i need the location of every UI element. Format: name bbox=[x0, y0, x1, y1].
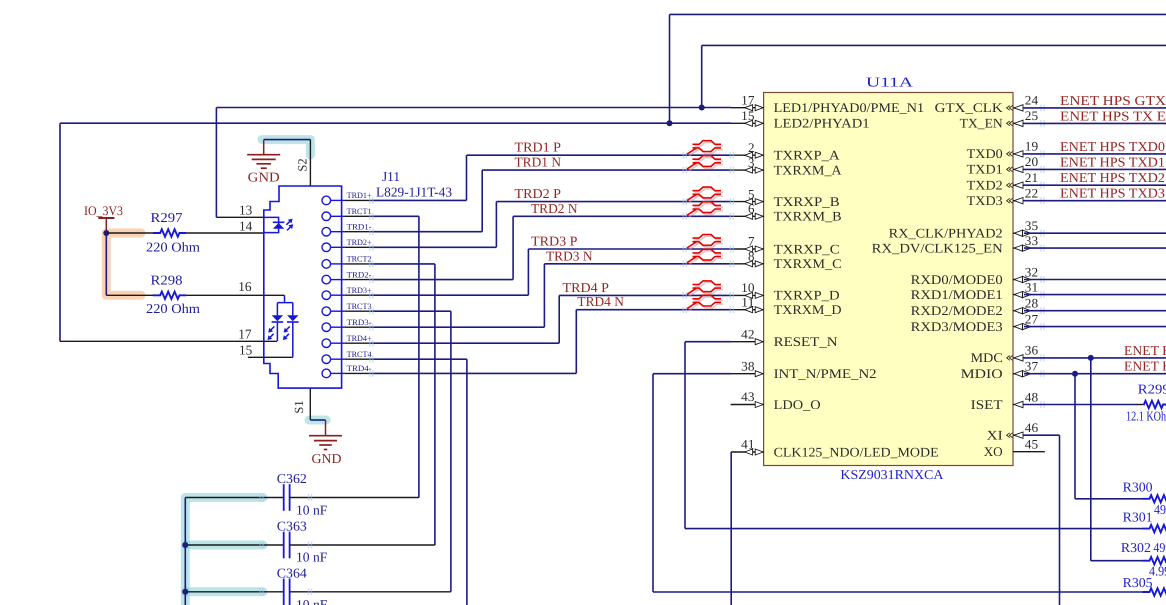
wire net ENET_HPS_GTX bbox=[1024, 107, 1166, 109]
svg-text:RXD3/MODE3: RXD3/MODE3 bbox=[911, 319, 1003, 334]
highlight IO_3V3 feed (peach) bbox=[106, 233, 141, 295]
U11A pin 22 TXD3 bbox=[1013, 200, 1024, 202]
U11A pin 37 MDIO bbox=[1013, 373, 1031, 375]
wire LED1 net (U11A pin17 to J11 pin13) bbox=[216, 107, 731, 109]
svg-text:C364: C364 bbox=[277, 566, 307, 581]
svg-text:TRD4 P: TRD4 P bbox=[563, 280, 610, 295]
power IO_3V3 bbox=[98, 217, 114, 219]
differential pair marker bbox=[694, 189, 723, 193]
wire RXD/RX net bbox=[1024, 326, 1166, 328]
wire from J11 TRD2- bbox=[372, 279, 514, 281]
svg-text:C363: C363 bbox=[277, 518, 307, 533]
svg-text:IO_3V3: IO_3V3 bbox=[84, 203, 123, 218]
J11 pin TRCT2 bbox=[331, 263, 345, 265]
wire net ENET_HPS_TXD2 bbox=[1024, 184, 1166, 186]
svg-text:ENET HPS TXD1: ENET HPS TXD1 bbox=[1060, 154, 1165, 169]
svg-text:TRD2 P: TRD2 P bbox=[515, 186, 562, 201]
U11A pin 35 RX_CLK/PHYAD2 bbox=[1013, 232, 1031, 234]
svg-text:TRCT2: TRCT2 bbox=[347, 255, 372, 264]
svg-text:TXRXM_D: TXRXM_D bbox=[774, 302, 842, 317]
connector J11 body bbox=[264, 186, 342, 388]
svg-text:TXD1: TXD1 bbox=[967, 162, 1003, 177]
svg-text:TRD1 N: TRD1 N bbox=[515, 155, 562, 170]
svg-text:17: 17 bbox=[238, 327, 252, 342]
wire IO_3V3 to R297/R298 bbox=[106, 232, 153, 234]
wire net TRD3_N bbox=[544, 263, 731, 265]
wire from J11 TRD4- bbox=[372, 372, 577, 374]
svg-text:RESET_N: RESET_N bbox=[774, 334, 839, 349]
svg-text:12.1 KOhm: 12.1 KOhm bbox=[1126, 408, 1166, 423]
wire net ENET_HPS_TXD0 bbox=[1024, 153, 1166, 155]
wire RXD/RX net bbox=[1024, 279, 1166, 281]
svg-text:LED1/PHYAD0/PME_N1: LED1/PHYAD0/PME_N1 bbox=[774, 100, 925, 115]
U11A pin 24 GTX_CLK bbox=[1013, 107, 1024, 109]
svg-text:31: 31 bbox=[1025, 279, 1038, 294]
svg-text:RXD1/MODE1: RXD1/MODE1 bbox=[911, 287, 1003, 302]
svg-text:R299: R299 bbox=[1138, 382, 1166, 397]
svg-text:TRD2 N: TRD2 N bbox=[531, 201, 578, 216]
svg-text:TXD3: TXD3 bbox=[967, 193, 1003, 208]
U11A pin 17 LED1/PHYAD0/PME_N1 bbox=[731, 107, 764, 109]
wire R297 to J11 pin14 bbox=[186, 232, 263, 234]
wire net TRD4_P bbox=[559, 294, 731, 296]
svg-text:22: 22 bbox=[1025, 186, 1038, 201]
J11 pin TRCT3 bbox=[331, 310, 345, 312]
wire net TRD3_P bbox=[528, 248, 731, 250]
svg-text:ENET HPS TXD3: ENET HPS TXD3 bbox=[1060, 186, 1165, 201]
svg-text:S2: S2 bbox=[296, 158, 310, 171]
svg-text:ENET HPS TXD0: ENET HPS TXD0 bbox=[1060, 139, 1165, 154]
U11A pin 2 TXRXP_A bbox=[731, 154, 764, 156]
LED D-bottom dual inside J11 (pins 16-17-15) bbox=[277, 295, 292, 315]
wire top net 2 bbox=[702, 44, 1166, 46]
wire XI crystal bbox=[1024, 434, 1060, 436]
svg-text:10 nF: 10 nF bbox=[296, 502, 328, 517]
svg-text:32: 32 bbox=[1025, 264, 1038, 279]
U11A pin 25 TX_EN bbox=[1013, 122, 1024, 124]
svg-text:48: 48 bbox=[1025, 389, 1038, 404]
svg-text:220 Ohm: 220 Ohm bbox=[146, 301, 201, 316]
wire R298 to J11 pin16 bbox=[186, 294, 284, 296]
wire net ENET_MDC bbox=[1024, 357, 1166, 359]
highlight S1-GND jog (teal) bbox=[309, 416, 326, 425]
wire RXD/RX net bbox=[1024, 232, 1166, 234]
U11A pin 28 RXD2/MODE2 bbox=[1013, 310, 1031, 312]
differential pair marker bbox=[694, 283, 723, 287]
svg-text:TXRXP_C: TXRXP_C bbox=[774, 241, 840, 256]
svg-text:33: 33 bbox=[1025, 233, 1038, 248]
U11A pin 46 XI bbox=[1013, 434, 1024, 436]
node junction MDIO bbox=[1072, 371, 1078, 377]
svg-text:TXD0: TXD0 bbox=[967, 146, 1003, 161]
U11A pin 7 TXRXP_C bbox=[731, 248, 764, 250]
J11 pin TRD2+ bbox=[331, 246, 345, 248]
J11 pin TRD2- bbox=[331, 279, 345, 281]
wire MDIO to R300 bbox=[1074, 374, 1076, 499]
U11A pin 38 INT_N/PME_N2 bbox=[731, 373, 764, 375]
svg-text:TRD2-: TRD2- bbox=[347, 270, 372, 279]
svg-text:CLK125_NDO/LED_MODE: CLK125_NDO/LED_MODE bbox=[774, 444, 939, 459]
U11A pin 21 TXD2 bbox=[1013, 184, 1024, 186]
ground GND (top) bbox=[263, 140, 265, 155]
svg-text:U11A: U11A bbox=[866, 75, 913, 90]
J11 pin TRD3- bbox=[331, 326, 345, 328]
differential pair marker bbox=[694, 251, 723, 255]
svg-text:24: 24 bbox=[1025, 93, 1039, 108]
svg-text:ISET: ISET bbox=[971, 397, 1003, 412]
svg-text:499: 499 bbox=[1154, 502, 1166, 517]
svg-text:RX_CLK/PHYAD2: RX_CLK/PHYAD2 bbox=[889, 226, 1003, 241]
svg-text:10 nF: 10 nF bbox=[296, 597, 328, 605]
svg-text:499: 499 bbox=[1153, 540, 1166, 555]
LED D-top inside J11 (pins 13-14) bbox=[264, 217, 279, 232]
wire INT_N net bbox=[653, 373, 731, 375]
U11A pin 15 LED2/PHYAD1 bbox=[731, 122, 764, 124]
U11A pin 5 TXRXP_B bbox=[731, 201, 764, 203]
wire RESET_N net bbox=[685, 341, 731, 343]
resistor R301 bbox=[1143, 525, 1166, 532]
resistor R299 bbox=[1024, 404, 1137, 406]
svg-text:J11: J11 bbox=[382, 169, 400, 184]
svg-text:21: 21 bbox=[1025, 170, 1038, 185]
svg-text:TXRXM_A: TXRXM_A bbox=[774, 162, 842, 177]
svg-text:TRCT3: TRCT3 bbox=[347, 302, 372, 311]
svg-text:14: 14 bbox=[239, 218, 253, 233]
svg-text:TRD1 P: TRD1 P bbox=[515, 140, 562, 155]
node junction C364 bbox=[182, 589, 188, 595]
U11A pin 43 LDO_O bbox=[731, 404, 764, 406]
J11 pin TRCT4 bbox=[331, 358, 345, 360]
wire from J11 TRD4+ bbox=[372, 342, 560, 344]
wire net ENET_MDIO bbox=[1024, 373, 1166, 375]
svg-text:220 Ohm: 220 Ohm bbox=[146, 240, 201, 255]
svg-text:TXRXM_C: TXRXM_C bbox=[774, 256, 842, 271]
U11A pin 41 CLK125_NDO/LED_MODE bbox=[731, 451, 764, 453]
differential pair marker bbox=[694, 204, 723, 208]
svg-text:43: 43 bbox=[741, 389, 754, 404]
svg-text:RXD0/MODE0: RXD0/MODE0 bbox=[911, 272, 1003, 287]
differential pair marker bbox=[694, 236, 723, 240]
node junction LED1 bbox=[699, 105, 705, 111]
svg-text:R302: R302 bbox=[1121, 540, 1151, 555]
svg-text:C362: C362 bbox=[277, 471, 307, 486]
resistor R300 bbox=[1143, 495, 1166, 502]
svg-text:TRD4 N: TRD4 N bbox=[577, 294, 624, 309]
svg-text:R298: R298 bbox=[151, 273, 183, 288]
J11 pin TRD3+ bbox=[331, 294, 345, 296]
node junction C363 bbox=[182, 542, 188, 548]
wire S2 shield bbox=[309, 140, 311, 186]
U11A pin 10 TXRXP_D bbox=[731, 294, 764, 296]
ground GND (bottom) bbox=[325, 420, 327, 436]
U11A pin 3 TXRXM_A bbox=[731, 169, 764, 171]
wire from J11 TRD2+ bbox=[372, 246, 497, 248]
wire RXD/RX net bbox=[1024, 294, 1166, 296]
svg-text:13: 13 bbox=[239, 203, 253, 218]
svg-text:TRD3 P: TRD3 P bbox=[531, 234, 578, 249]
svg-text:15: 15 bbox=[239, 343, 253, 358]
node junction MDC bbox=[1088, 355, 1094, 361]
U11A pin 19 TXD0 bbox=[1013, 153, 1024, 155]
U11A pin 32 RXD0/MODE0 bbox=[1013, 279, 1031, 281]
wire MDC to R302 bbox=[1090, 358, 1092, 561]
differential pair marker bbox=[694, 143, 723, 147]
svg-text:10 nF: 10 nF bbox=[296, 550, 328, 565]
resistor R302 bbox=[1143, 557, 1166, 564]
J11 pin TRD4+ bbox=[331, 342, 345, 344]
svg-text:GTX_CLK: GTX_CLK bbox=[935, 100, 1004, 115]
svg-text:XI: XI bbox=[987, 428, 1003, 443]
svg-text:TXRXP_D: TXRXP_D bbox=[774, 288, 840, 303]
svg-text:TRD1+: TRD1+ bbox=[347, 191, 372, 200]
svg-text:28: 28 bbox=[1025, 296, 1038, 311]
wire from J11 TRCT2 bbox=[372, 263, 435, 265]
svg-text:45: 45 bbox=[1025, 437, 1038, 452]
wire net ENET_HPS_TXD1 bbox=[1024, 168, 1166, 170]
wire S1 to GND bbox=[310, 419, 325, 421]
highlight GND-S2 wire (teal) bbox=[262, 140, 310, 155]
wire RXD/RX net bbox=[1024, 310, 1166, 312]
wire net ENET_HPS_TX_E bbox=[1024, 122, 1166, 124]
capacitor C364 bbox=[185, 591, 283, 593]
resistor R297 bbox=[153, 229, 186, 236]
highlight capacitor bus (teal) bbox=[185, 498, 263, 605]
U11A pin 27 RXD3/MODE3 bbox=[1013, 326, 1031, 328]
differential pair marker bbox=[694, 297, 723, 301]
svg-text:TRD3+: TRD3+ bbox=[347, 286, 372, 295]
svg-text:ENET H: ENET H bbox=[1124, 359, 1166, 374]
wire TRCT2 down to C363 bbox=[434, 264, 436, 545]
node junction LED2 bbox=[667, 120, 673, 126]
svg-text:TRD2+: TRD2+ bbox=[347, 238, 372, 247]
capacitor C362 bbox=[185, 497, 283, 499]
wire TRCT3 down to C364 bbox=[450, 311, 452, 592]
svg-text:TRD4-: TRD4- bbox=[347, 364, 372, 373]
U11A pin 6 TXRXM_B bbox=[731, 215, 764, 217]
capacitor C363 bbox=[185, 544, 283, 546]
resistor R305 bbox=[1143, 588, 1166, 595]
svg-text:TXRXP_A: TXRXP_A bbox=[774, 148, 841, 163]
wire from J11 TRD3+ bbox=[372, 294, 529, 296]
svg-text:MDC: MDC bbox=[971, 350, 1003, 365]
svg-text:25: 25 bbox=[1025, 108, 1038, 123]
J11 pin TRD1+ bbox=[331, 199, 345, 201]
U11A pin 11 TXRXM_D bbox=[731, 309, 764, 311]
svg-text:GND: GND bbox=[312, 451, 342, 466]
wire net TRD4_N bbox=[576, 309, 731, 311]
svg-text:R301: R301 bbox=[1123, 510, 1153, 525]
svg-text:KSZ9031RNXCA: KSZ9031RNXCA bbox=[840, 467, 943, 482]
svg-text:36: 36 bbox=[1025, 343, 1039, 358]
wire net TRD1_N bbox=[482, 169, 731, 171]
U11A pin 8 TXRXM_C bbox=[731, 263, 764, 265]
IC U11A body bbox=[764, 93, 1013, 466]
svg-text:ENET H: ENET H bbox=[1124, 343, 1166, 358]
wire TRCT1 down to C362 bbox=[418, 216, 420, 497]
wire capacitor bus bbox=[184, 498, 186, 605]
wire net TRD2_N bbox=[513, 215, 731, 217]
U11A pin 42 RESET_N bbox=[731, 341, 764, 343]
wire connection tick marks bbox=[682, 152, 684, 159]
wire net ENET_HPS_TXD3 bbox=[1024, 200, 1166, 202]
wire GND to S2 bbox=[264, 139, 311, 141]
wire TRCT4 down (to C365 off-sheet) bbox=[466, 359, 468, 605]
wire from J11 TRD3- bbox=[372, 326, 545, 328]
svg-text:MDIO: MDIO bbox=[961, 366, 1003, 381]
svg-text:TXRXM_B: TXRXM_B bbox=[774, 209, 842, 224]
svg-text:TRCT1: TRCT1 bbox=[347, 207, 372, 216]
svg-text:27: 27 bbox=[1025, 311, 1039, 326]
U11A pin 36 MDC bbox=[1013, 357, 1024, 359]
svg-text:42: 42 bbox=[741, 326, 754, 341]
svg-text:R297: R297 bbox=[151, 210, 183, 225]
svg-text:ENET HPS TXD2: ENET HPS TXD2 bbox=[1060, 170, 1165, 185]
svg-text:TRD4+: TRD4+ bbox=[347, 334, 372, 343]
wire RXD/RX net bbox=[1024, 247, 1166, 249]
svg-text:RXD2/MODE2: RXD2/MODE2 bbox=[911, 303, 1003, 318]
svg-text:ENET HPS TX E: ENET HPS TX E bbox=[1060, 108, 1166, 123]
J11 pin TRCT1 bbox=[331, 215, 345, 217]
svg-text:INT_N/PME_N2: INT_N/PME_N2 bbox=[774, 366, 877, 381]
U11A pin 45 XO bbox=[1013, 451, 1045, 453]
U11A pin 33 RX_DV/CLK125_EN bbox=[1013, 247, 1031, 249]
node junction IO_3V3 bbox=[103, 230, 109, 236]
svg-text:TRCT4: TRCT4 bbox=[347, 350, 372, 359]
wire from J11 TRCT3 bbox=[372, 310, 451, 312]
J11 pin TRD1- bbox=[331, 231, 345, 233]
svg-text:R300: R300 bbox=[1123, 480, 1153, 495]
resistor R298 bbox=[153, 292, 186, 299]
svg-text:TRD1-: TRD1- bbox=[347, 222, 372, 231]
differential pair marker bbox=[694, 157, 723, 161]
svg-text:TRD3-: TRD3- bbox=[347, 318, 372, 327]
svg-text:35: 35 bbox=[1025, 218, 1038, 233]
U11A pin 31 RXD1/MODE1 bbox=[1013, 294, 1031, 296]
svg-text:37: 37 bbox=[1025, 359, 1039, 374]
wire from J11 TRCT1 bbox=[372, 215, 419, 217]
wire S1 shield bbox=[309, 388, 311, 420]
svg-text:ENET HPS GTX: ENET HPS GTX bbox=[1060, 93, 1166, 108]
wire J11 pin15 stub bbox=[248, 356, 293, 358]
U11A pin 20 TXD1 bbox=[1013, 168, 1024, 170]
wire net TRD1_P bbox=[467, 154, 732, 156]
svg-text:TX_EN: TX_EN bbox=[960, 116, 1003, 131]
wire LED2 net (U11A pin15 to J11 pin17) bbox=[60, 122, 731, 124]
svg-text:TRD3 N: TRD3 N bbox=[546, 248, 593, 263]
svg-text:R305: R305 bbox=[1123, 575, 1153, 590]
svg-text:38: 38 bbox=[741, 358, 754, 373]
wire CLK125_NDO net bbox=[730, 452, 732, 605]
svg-text:16: 16 bbox=[238, 279, 252, 294]
wire from J11 TRD1- bbox=[372, 231, 483, 233]
wire top net 1 bbox=[670, 13, 1166, 15]
svg-text:46: 46 bbox=[1025, 420, 1039, 435]
svg-text:S1: S1 bbox=[292, 400, 306, 413]
wire from J11 TRD1+ bbox=[372, 199, 467, 201]
svg-text:L829-1J1T-43: L829-1J1T-43 bbox=[376, 184, 452, 199]
svg-text:RX_DV/CLK125_EN: RX_DV/CLK125_EN bbox=[872, 240, 1004, 255]
svg-text:19: 19 bbox=[1025, 139, 1038, 154]
J11 pin TRD4- bbox=[331, 372, 345, 374]
U11A pin 48 ISET bbox=[1013, 404, 1024, 406]
svg-text:XO: XO bbox=[984, 444, 1003, 459]
svg-text:TXD2: TXD2 bbox=[967, 178, 1003, 193]
svg-text:LDO_O: LDO_O bbox=[774, 397, 821, 412]
svg-text:LED2/PHYAD1: LED2/PHYAD1 bbox=[774, 116, 870, 131]
svg-text:TXRXP_B: TXRXP_B bbox=[774, 194, 840, 209]
wire net TRD2_P bbox=[496, 201, 731, 203]
svg-text:20: 20 bbox=[1025, 154, 1038, 169]
wire from J11 TRCT4 bbox=[372, 358, 467, 360]
svg-text:GND: GND bbox=[248, 170, 280, 185]
